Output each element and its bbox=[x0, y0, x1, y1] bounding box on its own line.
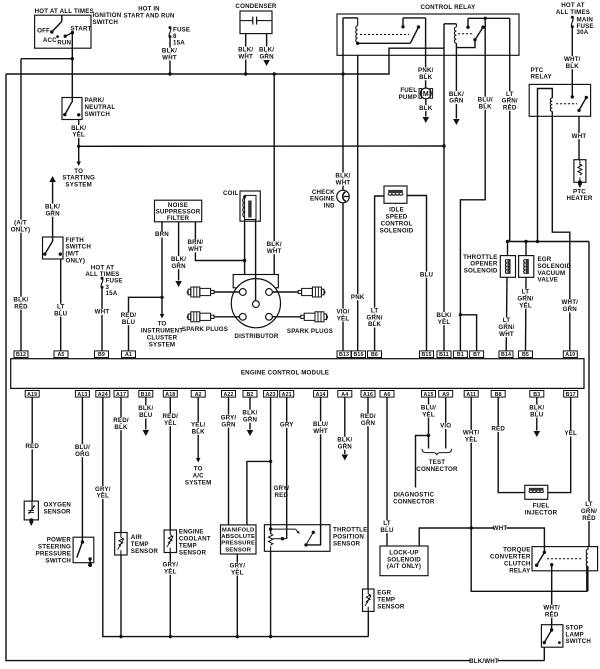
wire branch to B12 (A/T only) bbox=[21, 58, 72, 60]
svg-text:MANIFOLD: MANIFOLD bbox=[222, 528, 255, 534]
wire coil primary lead to distributor bbox=[244, 220, 246, 275]
terminal B2 bbox=[243, 391, 257, 398]
spark plug left 2 bbox=[211, 315, 214, 318]
wire BLK/YEL park/neutral to bus bbox=[78, 120, 80, 147]
wire WHT PTC relay to PTC heater bbox=[578, 116, 580, 159]
svg-text:YEL: YEL bbox=[72, 132, 85, 139]
wire BLK/GRN A4 to ground bbox=[344, 397, 346, 454]
svg-text:RED: RED bbox=[491, 426, 505, 433]
EGR solenoid vacuum valve bbox=[525, 242, 527, 256]
svg-text:GRN: GRN bbox=[449, 98, 464, 105]
node cluster junction bbox=[160, 296, 163, 299]
svg-text:YEL: YEL bbox=[564, 430, 577, 437]
svg-text:SENSOR: SENSOR bbox=[44, 509, 72, 516]
TPS wiper bbox=[271, 528, 296, 530]
terminal A15 bbox=[422, 391, 436, 398]
EGR temp sensor bbox=[363, 589, 375, 611]
svg-text:B14: B14 bbox=[501, 352, 511, 358]
terminal B8 bbox=[491, 391, 505, 398]
wire BLK/GRN noise filter to ground bbox=[178, 222, 180, 281]
svg-text:A11: A11 bbox=[466, 392, 476, 398]
svg-text:INJECTOR: INJECTOR bbox=[525, 509, 558, 516]
wire PTC relay to solenoid bus bbox=[537, 116, 539, 241]
svg-text:SWITCH: SWITCH bbox=[566, 638, 592, 645]
svg-text:GRN: GRN bbox=[243, 417, 258, 424]
wire GRY/GRN A22 to MAP sensor bbox=[228, 397, 230, 525]
ground noise filter bbox=[175, 281, 182, 287]
wire BLU ISC solenoid to B15 bbox=[407, 196, 427, 351]
node relay1 coil bottom bbox=[356, 42, 359, 45]
svg-text:SYSTEM: SYSTEM bbox=[185, 479, 212, 486]
wire LT GRN/RED solenoid bus to torque converter clutch relay bbox=[588, 242, 590, 547]
svg-text:B12: B12 bbox=[16, 352, 26, 358]
svg-text:B3: B3 bbox=[533, 392, 540, 398]
svg-text:BLK: BLK bbox=[419, 74, 433, 81]
svg-text:GRN: GRN bbox=[361, 420, 376, 427]
svg-text:SPARK PLUGS: SPARK PLUGS bbox=[182, 326, 228, 333]
svg-text:HOT IN: HOT IN bbox=[138, 7, 159, 13]
noise suppressor filter bbox=[155, 200, 202, 222]
svg-text:A15: A15 bbox=[423, 392, 433, 398]
wire EGR temp sensor to ground bus bbox=[367, 611, 369, 636]
node TCC relay output bbox=[550, 563, 553, 566]
manifold absolute pressure sensor bbox=[221, 525, 257, 554]
node BLK/YEL bus junction bbox=[442, 144, 445, 147]
terminal A21 bbox=[280, 391, 294, 398]
svg-text:WHT: WHT bbox=[162, 54, 177, 61]
svg-text:BLK: BLK bbox=[419, 105, 433, 112]
terminal A24 bbox=[96, 391, 110, 398]
check engine indicator bbox=[337, 190, 350, 203]
svg-text:BLU: BLU bbox=[139, 412, 153, 419]
wire VIO A9 to test connector bbox=[445, 397, 447, 448]
relay 1 coil bbox=[343, 17, 358, 19]
wire WHT lock-up feed bbox=[419, 528, 544, 552]
relay 1 switch bbox=[410, 27, 418, 43]
svg-text:RED: RED bbox=[25, 443, 39, 450]
park/neutral switch bbox=[62, 98, 82, 120]
node coolant temp ground tap bbox=[169, 635, 172, 638]
wire coil secondary to distributor center bbox=[255, 220, 257, 301]
node throttle opener tap bbox=[506, 240, 509, 243]
wire ignition START output to park/neutral switch bbox=[71, 33, 73, 98]
svg-text:RELAY: RELAY bbox=[531, 74, 553, 81]
wire to instrument cluster system bbox=[161, 297, 163, 315]
wire BLK/BLU B10 to ground bbox=[145, 397, 147, 429]
wire YEL B17 to fuel injector bbox=[548, 397, 571, 493]
stop lamp switch bbox=[541, 625, 563, 648]
node TPS ground tap bbox=[269, 635, 272, 638]
fuel pump motor bbox=[420, 88, 431, 99]
svg-text:YEL: YEL bbox=[519, 302, 532, 309]
svg-text:PNK: PNK bbox=[351, 294, 365, 301]
wire BLK/GRN relay2 coil to ground bbox=[455, 55, 457, 118]
node B1/B7 junction bbox=[459, 313, 462, 316]
wire BLU/BLK relay2 to B1 and B7 bbox=[460, 18, 485, 351]
wire BLU/YEL A15 to test connector bbox=[428, 397, 430, 448]
terminal A18 bbox=[163, 391, 177, 398]
wire BLK/GRN B2 to ground bbox=[249, 397, 251, 429]
terminal B12 bbox=[14, 351, 28, 358]
TPS wiper tap bbox=[273, 538, 287, 540]
relay 2 switch bbox=[473, 38, 476, 41]
svg-text:WHT: WHT bbox=[267, 248, 282, 255]
torque converter clutch relay bbox=[532, 547, 598, 571]
terminal B15 bbox=[420, 351, 434, 358]
wire ISC solenoid to B6 bbox=[375, 196, 384, 351]
wire RED/GRN A16 to EGR temp sensor bbox=[367, 397, 369, 589]
node park/neutral bus junction bbox=[77, 145, 80, 148]
svg-text:B16: B16 bbox=[353, 352, 363, 358]
condenser bbox=[240, 11, 272, 34]
control relay bbox=[337, 14, 519, 55]
node relay2 BLU/BLK tap bbox=[484, 17, 487, 20]
svg-text:30A: 30A bbox=[577, 29, 589, 36]
svg-text:BLK: BLK bbox=[479, 104, 493, 111]
svg-text:GRN: GRN bbox=[259, 53, 274, 60]
node diagnostic tap bbox=[427, 434, 430, 437]
node air temp ground tap bbox=[119, 635, 122, 638]
throttle position sensor bbox=[264, 525, 330, 552]
throttle opener solenoid bbox=[507, 242, 509, 256]
wire PNK control relay to B16 bbox=[357, 55, 359, 351]
distributor bbox=[233, 275, 278, 288]
svg-text:WHT: WHT bbox=[313, 428, 328, 435]
svg-text:A23: A23 bbox=[266, 392, 276, 398]
svg-text:(A/T ONLY): (A/T ONLY) bbox=[387, 563, 421, 570]
wire GRY/YEL A24 to sensor ground bus bbox=[103, 397, 369, 636]
terminal A9 bbox=[439, 391, 453, 398]
ignition switch bbox=[35, 15, 91, 48]
svg-text:B1: B1 bbox=[457, 352, 464, 358]
wire relay2 common bbox=[456, 40, 475, 48]
svg-text:CONDENSER: CONDENSER bbox=[235, 3, 277, 10]
svg-text:SENSOR: SENSOR bbox=[131, 548, 159, 555]
wire WHT/RED TCC relay to stop lamp switch bbox=[551, 565, 553, 625]
fifth switch bbox=[43, 237, 64, 259]
wire WHT/BLK main fuse to PTC relay bbox=[571, 27, 573, 97]
terminal B1 bbox=[453, 351, 467, 358]
svg-text:A9: A9 bbox=[442, 392, 449, 398]
wire LT BLU A6 to lock-up solenoid bbox=[386, 397, 388, 546]
svg-text:COIL: COIL bbox=[223, 190, 239, 197]
svg-text:SENSOR: SENSOR bbox=[377, 603, 405, 610]
terminal B11 bbox=[437, 351, 451, 358]
wire BLK/GRN to fifth switch bbox=[49, 176, 56, 182]
node MAP reference tap bbox=[269, 460, 272, 463]
wire RED/YEL A18 to coolant temp sensor bbox=[169, 397, 171, 530]
svg-text:YEL: YEL bbox=[97, 493, 110, 500]
svg-text:CONTROL RELAY: CONTROL RELAY bbox=[421, 4, 477, 11]
idle speed control solenoid bbox=[384, 186, 407, 203]
wire GRY A21 to TPS wiper bbox=[286, 397, 288, 539]
svg-text:A10: A10 bbox=[565, 352, 575, 358]
svg-text:BLU: BLU bbox=[122, 319, 136, 326]
node fuse8 tap bbox=[168, 72, 171, 75]
fuel injector bbox=[525, 485, 548, 499]
svg-text:B10: B10 bbox=[141, 392, 151, 398]
terminal B7 bbox=[470, 351, 484, 358]
wire WHT/GRN PTC coil to A10 bbox=[552, 116, 570, 351]
svg-text:START AND RUN: START AND RUN bbox=[123, 14, 174, 20]
svg-text:A2: A2 bbox=[195, 392, 202, 398]
wire switched bus y=146 bbox=[79, 145, 444, 147]
svg-text:B13: B13 bbox=[339, 352, 349, 358]
svg-text:BRN: BRN bbox=[155, 231, 169, 238]
svg-text:CONNECTOR: CONNECTOR bbox=[393, 498, 435, 505]
svg-text:VALVE: VALVE bbox=[538, 277, 559, 284]
terminal B9 bbox=[95, 351, 109, 358]
terminal B10 bbox=[139, 391, 153, 398]
svg-text:WHT: WHT bbox=[238, 53, 253, 60]
svg-text:B15: B15 bbox=[421, 352, 431, 358]
wire distributor to right spark plug 1 bbox=[272, 291, 298, 293]
svg-text:B5: B5 bbox=[522, 352, 529, 358]
svg-text:WHT: WHT bbox=[572, 133, 587, 140]
svg-text:WHT: WHT bbox=[493, 525, 508, 532]
TPS idle switch bbox=[304, 543, 307, 546]
terminal A13 bbox=[75, 391, 89, 398]
svg-text:B11: B11 bbox=[439, 352, 449, 358]
wire relay2 feed riser bbox=[443, 24, 445, 48]
terminal A2 bbox=[191, 391, 205, 398]
wire RED A19 to oxygen sensor bbox=[31, 397, 33, 501]
svg-text:RED: RED bbox=[503, 105, 517, 112]
wire GRY/YEL MAP sensor to ground bus bbox=[236, 554, 238, 637]
svg-text:YEL: YEL bbox=[231, 569, 244, 576]
svg-text:GRY: GRY bbox=[280, 422, 294, 429]
svg-text:ENGINE CONTROL MODULE: ENGINE CONTROL MODULE bbox=[241, 370, 329, 377]
svg-text:SENSOR: SENSOR bbox=[179, 549, 207, 556]
svg-text:B6: B6 bbox=[371, 352, 378, 358]
terminal B16 bbox=[352, 351, 366, 358]
svg-text:A22: A22 bbox=[223, 392, 233, 398]
wire GRY/RED A23 to TPS bbox=[270, 397, 272, 534]
wire GRY/YEL coolant sensor to ground bus bbox=[169, 553, 171, 637]
svg-text:SYSTEM: SYSTEM bbox=[65, 182, 92, 189]
svg-text:RED: RED bbox=[582, 515, 596, 522]
svg-text:WHT: WHT bbox=[95, 309, 110, 316]
node WHT junction bbox=[470, 526, 473, 529]
ground B10 bbox=[143, 430, 150, 436]
svg-text:BLK: BLK bbox=[368, 321, 382, 328]
svg-text:SYSTEM: SYSTEM bbox=[149, 341, 176, 348]
svg-text:BLU: BLU bbox=[530, 411, 544, 418]
svg-text:DISTRIBUTOR: DISTRIBUTOR bbox=[234, 333, 278, 340]
svg-text:BLU: BLU bbox=[420, 271, 434, 278]
svg-text:FILTER: FILTER bbox=[167, 215, 190, 222]
engine coolant temp sensor bbox=[164, 530, 176, 553]
node EGR valve tap bbox=[524, 240, 527, 243]
wire BLK/WHT fuse 8 to bus bbox=[169, 37, 171, 74]
wire to starting system bbox=[78, 146, 80, 162]
svg-text:A6: A6 bbox=[384, 392, 391, 398]
terminal B3 bbox=[530, 391, 544, 398]
wire air temp sensor to ground bus bbox=[120, 555, 122, 637]
svg-text:B7: B7 bbox=[473, 352, 480, 358]
svg-text:SWITCH: SWITCH bbox=[46, 557, 72, 564]
svg-text:IND: IND bbox=[324, 202, 336, 209]
node PTC branch tap bbox=[536, 240, 539, 243]
svg-text:ACC: ACC bbox=[43, 37, 57, 44]
svg-text:A18: A18 bbox=[165, 392, 175, 398]
svg-text:HEATER: HEATER bbox=[566, 195, 592, 202]
svg-text:CONNECTOR: CONNECTOR bbox=[416, 466, 458, 473]
wire TPS to ground bus bbox=[270, 551, 272, 636]
wire BLK/GRN condenser right lead to ground bbox=[266, 34, 268, 60]
svg-text:SOLENOID: SOLENOID bbox=[380, 227, 414, 234]
svg-text:SWITCH: SWITCH bbox=[93, 19, 119, 26]
svg-text:ABSOLUTE: ABSOLUTE bbox=[221, 534, 255, 540]
wire B7 branch bbox=[460, 315, 476, 351]
svg-text:15A: 15A bbox=[173, 39, 185, 46]
svg-text:BLU: BLU bbox=[54, 310, 68, 317]
wire RED/BLU A1 to instrument cluster bbox=[129, 297, 163, 351]
svg-text:A16: A16 bbox=[363, 392, 373, 398]
terminal A10 bbox=[563, 351, 577, 358]
wire BLK/WHT distributor feed bbox=[273, 74, 275, 275]
svg-text:A19: A19 bbox=[27, 392, 37, 398]
svg-text:A24: A24 bbox=[98, 392, 108, 398]
terminal B17 bbox=[564, 391, 578, 398]
terminal A17 bbox=[114, 391, 128, 398]
wire distributor to left spark plug 1 bbox=[214, 291, 239, 293]
svg-text:SENSOR: SENSOR bbox=[333, 540, 361, 547]
terminal A11 bbox=[464, 391, 478, 398]
svg-text:A4: A4 bbox=[341, 392, 348, 398]
svg-text:BLU: BLU bbox=[380, 527, 394, 534]
node distributor feed tap bbox=[273, 72, 276, 75]
svg-text:B8: B8 bbox=[495, 392, 502, 398]
ground B2 bbox=[247, 430, 254, 436]
spark plug right 1 bbox=[298, 290, 301, 293]
svg-text:A21: A21 bbox=[282, 392, 292, 398]
svg-text:GRN: GRN bbox=[221, 421, 236, 428]
svg-text:PRESSURE: PRESSURE bbox=[221, 541, 255, 547]
wire WHT/YEL A11 to torque converter clutch relay coil bbox=[471, 397, 587, 591]
svg-text:A5: A5 bbox=[58, 352, 65, 358]
svg-text:BLK: BLK bbox=[566, 63, 580, 70]
node ignition branch junction bbox=[71, 57, 74, 60]
ground condenser BLK/GRN bbox=[263, 60, 270, 66]
node condenser tap bbox=[244, 72, 247, 75]
svg-text:VIO: VIO bbox=[440, 423, 451, 430]
svg-text:B17: B17 bbox=[566, 392, 576, 398]
terminal A23 bbox=[264, 391, 278, 398]
wire BRN/WHT noise filter to coil lead bbox=[195, 222, 244, 261]
node control relay tap bbox=[341, 72, 344, 75]
wire BLK/BLU B3 to ground bbox=[536, 397, 538, 430]
wire LT GRN/RED relay2 to solenoid bus bbox=[509, 18, 511, 241]
wire BLU/ORG A13 to power steering switch bbox=[81, 397, 83, 537]
svg-text:A17: A17 bbox=[116, 392, 126, 398]
wire RED B8 to fuel injector bbox=[498, 397, 525, 493]
svg-text:YEL: YEL bbox=[164, 420, 177, 427]
wire YEL/BLK A2 to A/C system bbox=[197, 397, 199, 459]
svg-text:ONLY): ONLY) bbox=[66, 258, 86, 265]
svg-text:OFF: OFF bbox=[37, 28, 50, 35]
svg-text:WHT: WHT bbox=[499, 331, 514, 338]
svg-text:YEL: YEL bbox=[337, 315, 350, 322]
svg-text:B9: B9 bbox=[98, 352, 105, 358]
terminal B5 bbox=[519, 351, 533, 358]
svg-text:GRN: GRN bbox=[171, 263, 186, 270]
PTC relay bbox=[529, 84, 590, 116]
wire BRN noise filter to cluster line bbox=[161, 222, 163, 297]
svg-text:A1: A1 bbox=[125, 352, 132, 358]
svg-text:YEL: YEL bbox=[422, 411, 435, 418]
svg-text:SOLENOID: SOLENOID bbox=[464, 268, 498, 275]
test connector brace bbox=[422, 449, 452, 455]
svg-text:WHT: WHT bbox=[336, 179, 351, 186]
svg-text:WHT: WHT bbox=[188, 246, 203, 253]
svg-text:GRN: GRN bbox=[338, 444, 353, 451]
terminal A6 bbox=[380, 391, 394, 398]
wire distributor to right spark plug 2 bbox=[272, 316, 300, 318]
svg-text:RUN: RUN bbox=[57, 40, 71, 47]
svg-text:RELAY: RELAY bbox=[509, 567, 531, 574]
terminal B13 bbox=[337, 351, 351, 358]
svg-text:ONLY): ONLY) bbox=[11, 226, 31, 233]
svg-text:ORG: ORG bbox=[75, 451, 90, 458]
wire left frame ground bbox=[6, 74, 544, 661]
PTC heater bbox=[574, 160, 586, 183]
ground B3 bbox=[534, 431, 541, 437]
svg-text:HOT AT ALL TIMES: HOT AT ALL TIMES bbox=[35, 8, 94, 15]
ground A4 bbox=[342, 455, 349, 461]
svg-text:GRN: GRN bbox=[563, 306, 578, 313]
terminal A22 bbox=[222, 391, 236, 398]
wire diagnostic connector stub bbox=[416, 436, 429, 488]
wire MAP reference branch bbox=[247, 461, 271, 525]
terminal A14 bbox=[314, 391, 328, 398]
svg-text:PUMP: PUMP bbox=[399, 94, 418, 101]
wire LT BLU fifth switch to A5 bbox=[60, 259, 62, 351]
svg-text:BLK: BLK bbox=[114, 424, 128, 431]
node MAP ground tap bbox=[236, 635, 239, 638]
wire relay1 feed bbox=[342, 18, 344, 55]
spark plug left 1 bbox=[211, 290, 214, 293]
wire PNK/BLK relay1 to fuel pump bbox=[425, 18, 427, 88]
svg-text:B2: B2 bbox=[247, 392, 254, 398]
svg-text:BLK: BLK bbox=[192, 429, 206, 436]
wire WHT fuse 3 to B9 bbox=[101, 287, 103, 351]
air temp sensor bbox=[115, 533, 127, 556]
svg-text:A14: A14 bbox=[316, 392, 326, 398]
svg-text:RED: RED bbox=[545, 612, 559, 619]
node coil/noise-filter junction bbox=[243, 259, 246, 262]
terminal A1 bbox=[122, 351, 136, 358]
svg-text:BLK/WHT: BLK/WHT bbox=[469, 658, 499, 665]
svg-text:SWITCH: SWITCH bbox=[85, 111, 111, 118]
oxygen sensor bbox=[24, 501, 38, 520]
svg-text:A13: A13 bbox=[77, 392, 87, 398]
wire stop lamp switch to BLK/WHT ground line bbox=[543, 647, 545, 660]
svg-text:GRN: GRN bbox=[45, 210, 60, 217]
wire LT GRN/WHT throttle opener to B14 bbox=[505, 277, 508, 351]
wire RED/BLK A17 to air temp sensor bbox=[120, 397, 122, 532]
wire BLK/WHT condenser left lead to bus bbox=[245, 34, 247, 74]
wire distributor to left spark plug 2 bbox=[214, 316, 239, 318]
svg-text:SENSOR: SENSOR bbox=[225, 547, 252, 553]
terminal A16 bbox=[361, 391, 375, 398]
wire BLU/WHT A14 to TPS idle switch bbox=[306, 397, 321, 545]
wire BLK/YEL bus to B11 bbox=[443, 48, 445, 351]
svg-text:15A: 15A bbox=[106, 290, 118, 297]
ground relay2 coil bbox=[453, 119, 460, 125]
svg-text:RED: RED bbox=[14, 303, 28, 310]
terminal A5 bbox=[54, 351, 68, 358]
